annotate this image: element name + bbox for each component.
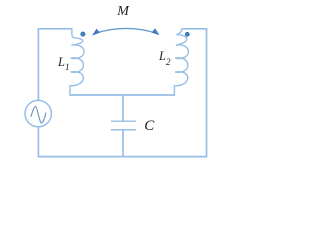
inductor L1 coil xyxy=(70,29,84,95)
AC source V1 circle xyxy=(25,100,51,126)
inductor L2 coil xyxy=(174,29,188,95)
label M xyxy=(117,5,129,19)
wire: top-right horizontal xyxy=(182,28,208,30)
polarity dot of L2 xyxy=(185,32,189,36)
capacitor C top plate xyxy=(111,120,136,122)
label L2 xyxy=(159,50,170,67)
polarity dot of L1 xyxy=(81,32,85,36)
mutual coupling arc M xyxy=(93,28,157,33)
wire: bottom horizontal xyxy=(38,156,208,158)
AC source sine wave xyxy=(31,106,46,122)
wire: left vertical (source to bottom corner) xyxy=(37,127,39,157)
arrowhead right of M arc xyxy=(152,29,160,36)
arrowhead left of M arc xyxy=(92,29,100,36)
capacitor C bottom plate xyxy=(111,129,136,131)
wire: right vertical xyxy=(206,29,208,157)
wire: top-left horizontal xyxy=(38,28,73,30)
wire: middle bus between coil bottoms xyxy=(69,94,175,96)
label L1 xyxy=(58,56,69,72)
wire: capacitor top lead xyxy=(122,95,124,121)
wire: capacitor bottom lead xyxy=(122,130,124,157)
label C xyxy=(144,119,154,134)
wire: left vertical (top corner to source) xyxy=(37,29,39,101)
